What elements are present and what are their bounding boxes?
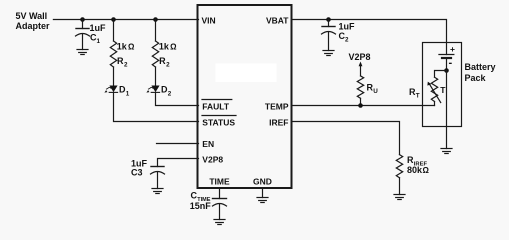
- svg-text:1k: 1k: [117, 42, 128, 52]
- node junction C1: [80, 17, 85, 22]
- svg-text:5V Wall: 5V Wall: [16, 11, 48, 21]
- thermistor T: [427, 77, 446, 102]
- svg-text:1uF: 1uF: [339, 22, 356, 32]
- wire battery neg down to ground: [446, 71, 448, 149]
- pin FAULT: [202, 100, 232, 112]
- node RT label: [409, 87, 420, 100]
- LED D1: [104, 85, 129, 98]
- node junction R2b: [153, 17, 158, 22]
- node junction battery negative: [444, 68, 449, 73]
- wire IREF line: [292, 122, 400, 155]
- svg-text:Ω: Ω: [423, 166, 430, 175]
- wire GND pin stub: [262, 188, 264, 198]
- svg-text:+: +: [450, 44, 455, 54]
- ground for C3: [152, 189, 163, 194]
- wire TIME pin to CTIME: [219, 188, 221, 199]
- svg-text:T: T: [416, 93, 420, 100]
- svg-text:2: 2: [124, 61, 128, 68]
- capacitor CTIME 15nF: [190, 191, 227, 220]
- wire battery neg to thermistor: [435, 71, 447, 78]
- svg-text:1: 1: [126, 91, 130, 98]
- svg-text:Ω: Ω: [170, 43, 177, 52]
- svg-text:EN: EN: [202, 139, 214, 149]
- node battery pack label: [465, 62, 496, 83]
- pin STATUS: [202, 116, 236, 128]
- resistor RU: [357, 76, 378, 98]
- svg-text:1: 1: [97, 38, 101, 45]
- svg-text:GND: GND: [253, 176, 272, 186]
- node V2P8 net label with arrow: [349, 52, 371, 76]
- wire V2P8 pin to C3: [158, 159, 199, 167]
- svg-text:U: U: [373, 88, 378, 95]
- svg-text:15nF: 15nF: [190, 201, 212, 211]
- svg-text:2: 2: [345, 37, 349, 44]
- ground for GND pin: [257, 198, 268, 203]
- svg-text:TEMP: TEMP: [265, 101, 289, 111]
- wire R2b to D2: [155, 67, 157, 86]
- svg-text:T: T: [440, 85, 446, 95]
- battery cell B1: [439, 44, 455, 71]
- node 5V wall adapter label: [16, 11, 51, 31]
- wire D2 to FAULT: [156, 92, 199, 105]
- ground for battery pack: [441, 149, 452, 154]
- resistor RIREF 80k: [396, 155, 429, 178]
- svg-text:STATUS: STATUS: [202, 117, 235, 127]
- wire thermistor to TEMP: [434, 102, 436, 106]
- svg-text:VBAT: VBAT: [266, 15, 289, 25]
- op-amp U1 charger IC body: [198, 5, 292, 188]
- svg-text:80k: 80k: [407, 165, 423, 175]
- svg-text:VIN: VIN: [202, 15, 216, 25]
- svg-text:Pack: Pack: [465, 73, 487, 83]
- svg-text:1uF: 1uF: [90, 23, 107, 33]
- wire R2a to D1: [113, 67, 115, 86]
- ground for C2: [323, 51, 334, 56]
- capacitor C3: [131, 158, 165, 188]
- svg-text:R: R: [117, 56, 124, 66]
- svg-text:-: -: [449, 57, 453, 69]
- wire VIN rail: [53, 19, 198, 21]
- svg-text:FAULT: FAULT: [202, 101, 230, 111]
- wire D1 to STATUS: [114, 92, 199, 121]
- svg-text:R: R: [159, 56, 166, 66]
- wire VBAT rail: [292, 20, 447, 55]
- svg-text:C3: C3: [131, 168, 143, 178]
- svg-text:Adapter: Adapter: [16, 21, 51, 31]
- node junction R2a: [111, 17, 116, 22]
- capacitor C2: [322, 20, 356, 51]
- capacitor C1: [76, 20, 107, 50]
- svg-text:2: 2: [166, 61, 170, 68]
- wire rail to R2b: [155, 20, 157, 42]
- wire RU to TEMP: [360, 98, 362, 105]
- svg-text:1k: 1k: [159, 42, 170, 52]
- resistor R2 (right) 1k: [152, 41, 177, 68]
- resistor R2 (left) 1k: [110, 41, 135, 68]
- ground for RIREF: [394, 195, 405, 200]
- svg-text:2: 2: [168, 91, 172, 98]
- node junction RU/TEMP: [358, 103, 363, 108]
- svg-text:TIME: TIME: [209, 176, 230, 186]
- LED D2: [146, 85, 171, 98]
- svg-text:Ω: Ω: [128, 43, 135, 52]
- ground for C1: [77, 50, 88, 55]
- svg-text:Battery: Battery: [465, 62, 496, 72]
- ground for CTIME: [214, 220, 225, 225]
- svg-text:V2P8: V2P8: [349, 52, 371, 62]
- wire TEMP line: [292, 105, 435, 107]
- svg-text:IREF: IREF: [269, 117, 288, 127]
- wire EN stub: [157, 143, 199, 145]
- node junction C2: [326, 17, 331, 22]
- battery pack box: [423, 43, 462, 127]
- svg-text:V2P8: V2P8: [202, 154, 223, 164]
- wire RIREF to ground: [399, 178, 401, 195]
- wire rail to R2a: [113, 20, 115, 42]
